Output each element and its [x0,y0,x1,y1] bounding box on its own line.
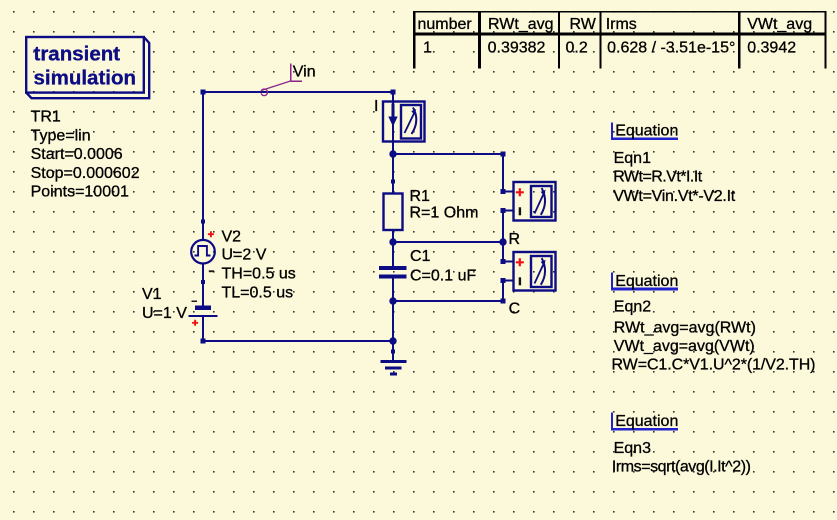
svg-text:Start=0.0006: Start=0.0006 [31,146,123,163]
svg-text:Equation: Equation [615,123,678,140]
svg-text:VWt_avg: VWt_avg [747,16,812,33]
svg-text:Type=lin: Type=lin [31,127,91,144]
svg-text:U=2 V: U=2 V [222,246,267,263]
svg-text:RWt_avg: RWt_avg [488,16,554,33]
svg-text:TH=0.5 us: TH=0.5 us [222,265,296,282]
svg-text:I: I [374,98,378,115]
svg-text:TR1: TR1 [31,109,61,126]
svg-text:U=1 V: U=1 V [142,305,187,322]
svg-text:VWt=Vin.Vt*-V2.It: VWt=Vin.Vt*-V2.It [613,188,736,205]
svg-text:C=0.1 uF: C=0.1 uF [410,268,476,285]
svg-text:C: C [509,301,521,318]
svg-text:R=1 Ohm: R=1 Ohm [410,205,479,222]
svg-text:Irms=sqrt(avg(I.It^2)): Irms=sqrt(avg(I.It^2)) [612,458,751,475]
svg-text:Vin: Vin [293,64,316,81]
svg-text:RWt=R.Vt*I.It: RWt=R.Vt*I.It [613,169,703,186]
svg-text:0.2: 0.2 [566,39,588,56]
svg-text:0.39382: 0.39382 [488,39,546,56]
svg-text:TL=0.5 us: TL=0.5 us [222,285,294,302]
svg-text:Eqn3: Eqn3 [614,440,651,457]
svg-text:0.628 / -3.51e-15°: 0.628 / -3.51e-15° [607,39,735,56]
svg-text:Eqn1: Eqn1 [614,150,651,167]
svg-text:Irms: Irms [606,16,637,33]
svg-text:number: number [418,16,473,33]
svg-text:transient: transient [34,43,121,66]
svg-text:Eqn2: Eqn2 [614,298,651,315]
svg-text:1: 1 [423,39,432,56]
svg-text:R: R [509,231,521,248]
svg-text:C1: C1 [410,248,431,265]
svg-text:Stop=0.000602: Stop=0.000602 [31,165,140,182]
svg-text:Equation: Equation [615,413,678,430]
svg-text:V2: V2 [222,229,242,246]
svg-text:0.3942: 0.3942 [747,39,796,56]
svg-text:simulation: simulation [34,67,137,90]
svg-text:VWt_avg=avg(VWt): VWt_avg=avg(VWt) [614,338,755,355]
svg-text:R1: R1 [410,188,431,205]
svg-text:Points=10001: Points=10001 [31,184,129,201]
svg-text:RW=C1.C*V1.U^2*(1/V2.TH): RW=C1.C*V1.U^2*(1/V2.TH) [612,356,816,373]
svg-text:V1: V1 [142,286,162,303]
svg-text:Equation: Equation [615,273,678,290]
svg-text:RWt_avg=avg(RWt): RWt_avg=avg(RWt) [614,320,756,337]
svg-text:RW: RW [570,16,597,33]
